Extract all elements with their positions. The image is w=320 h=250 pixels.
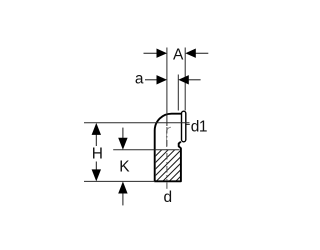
centerline (dash-dot) of socket xyxy=(166,127,168,181)
dimension H line lower segment xyxy=(95,162,97,172)
svg-text:d1: d1 xyxy=(191,118,207,135)
arrow a left xyxy=(157,75,168,84)
svg-text:K: K xyxy=(119,159,130,176)
arrow H top xyxy=(92,123,101,135)
arrow K top (pointing down onto line) xyxy=(118,138,127,150)
arrow K bottom (pointing up onto line) xyxy=(118,182,127,194)
wire: K top reference line xyxy=(113,149,154,151)
arrow a right xyxy=(178,75,189,84)
arrow A right xyxy=(185,49,196,58)
wire: extension line L1 (fitting axis, upper solid part) xyxy=(166,48,168,127)
svg-text:A: A xyxy=(173,46,184,63)
d1 leader stub xyxy=(187,123,190,125)
hatch top boundary xyxy=(155,149,180,151)
dimension H line upper segment xyxy=(95,133,97,146)
wire: horizontal reference line through outlet axis (H top / d1 leader) xyxy=(84,122,190,124)
centerline tail below socket xyxy=(166,182,168,188)
dimension a line left xyxy=(145,79,160,81)
arrow H bottom xyxy=(92,169,101,181)
svg-text:a: a xyxy=(135,70,144,87)
dimension A line right xyxy=(192,52,208,54)
wire: bottom reference line (H/K bottom) xyxy=(84,180,155,182)
elbow fitting body (outer wall) xyxy=(155,114,182,182)
svg-text:d: d xyxy=(163,189,172,206)
dimension K upper tail xyxy=(122,128,124,139)
svg-text:H: H xyxy=(92,146,103,163)
dimension A line left xyxy=(144,52,161,54)
arrow A left xyxy=(157,49,168,58)
inner bore wall (faint) xyxy=(167,127,171,147)
outlet lip seal flange (capsule) xyxy=(182,111,186,142)
wire: extension line L2 (for dimension a) xyxy=(177,75,179,111)
dimension K lower tail xyxy=(122,193,124,206)
wire: extension line L3 (for dimension A) xyxy=(184,48,186,111)
dimension a line right xyxy=(186,79,201,81)
